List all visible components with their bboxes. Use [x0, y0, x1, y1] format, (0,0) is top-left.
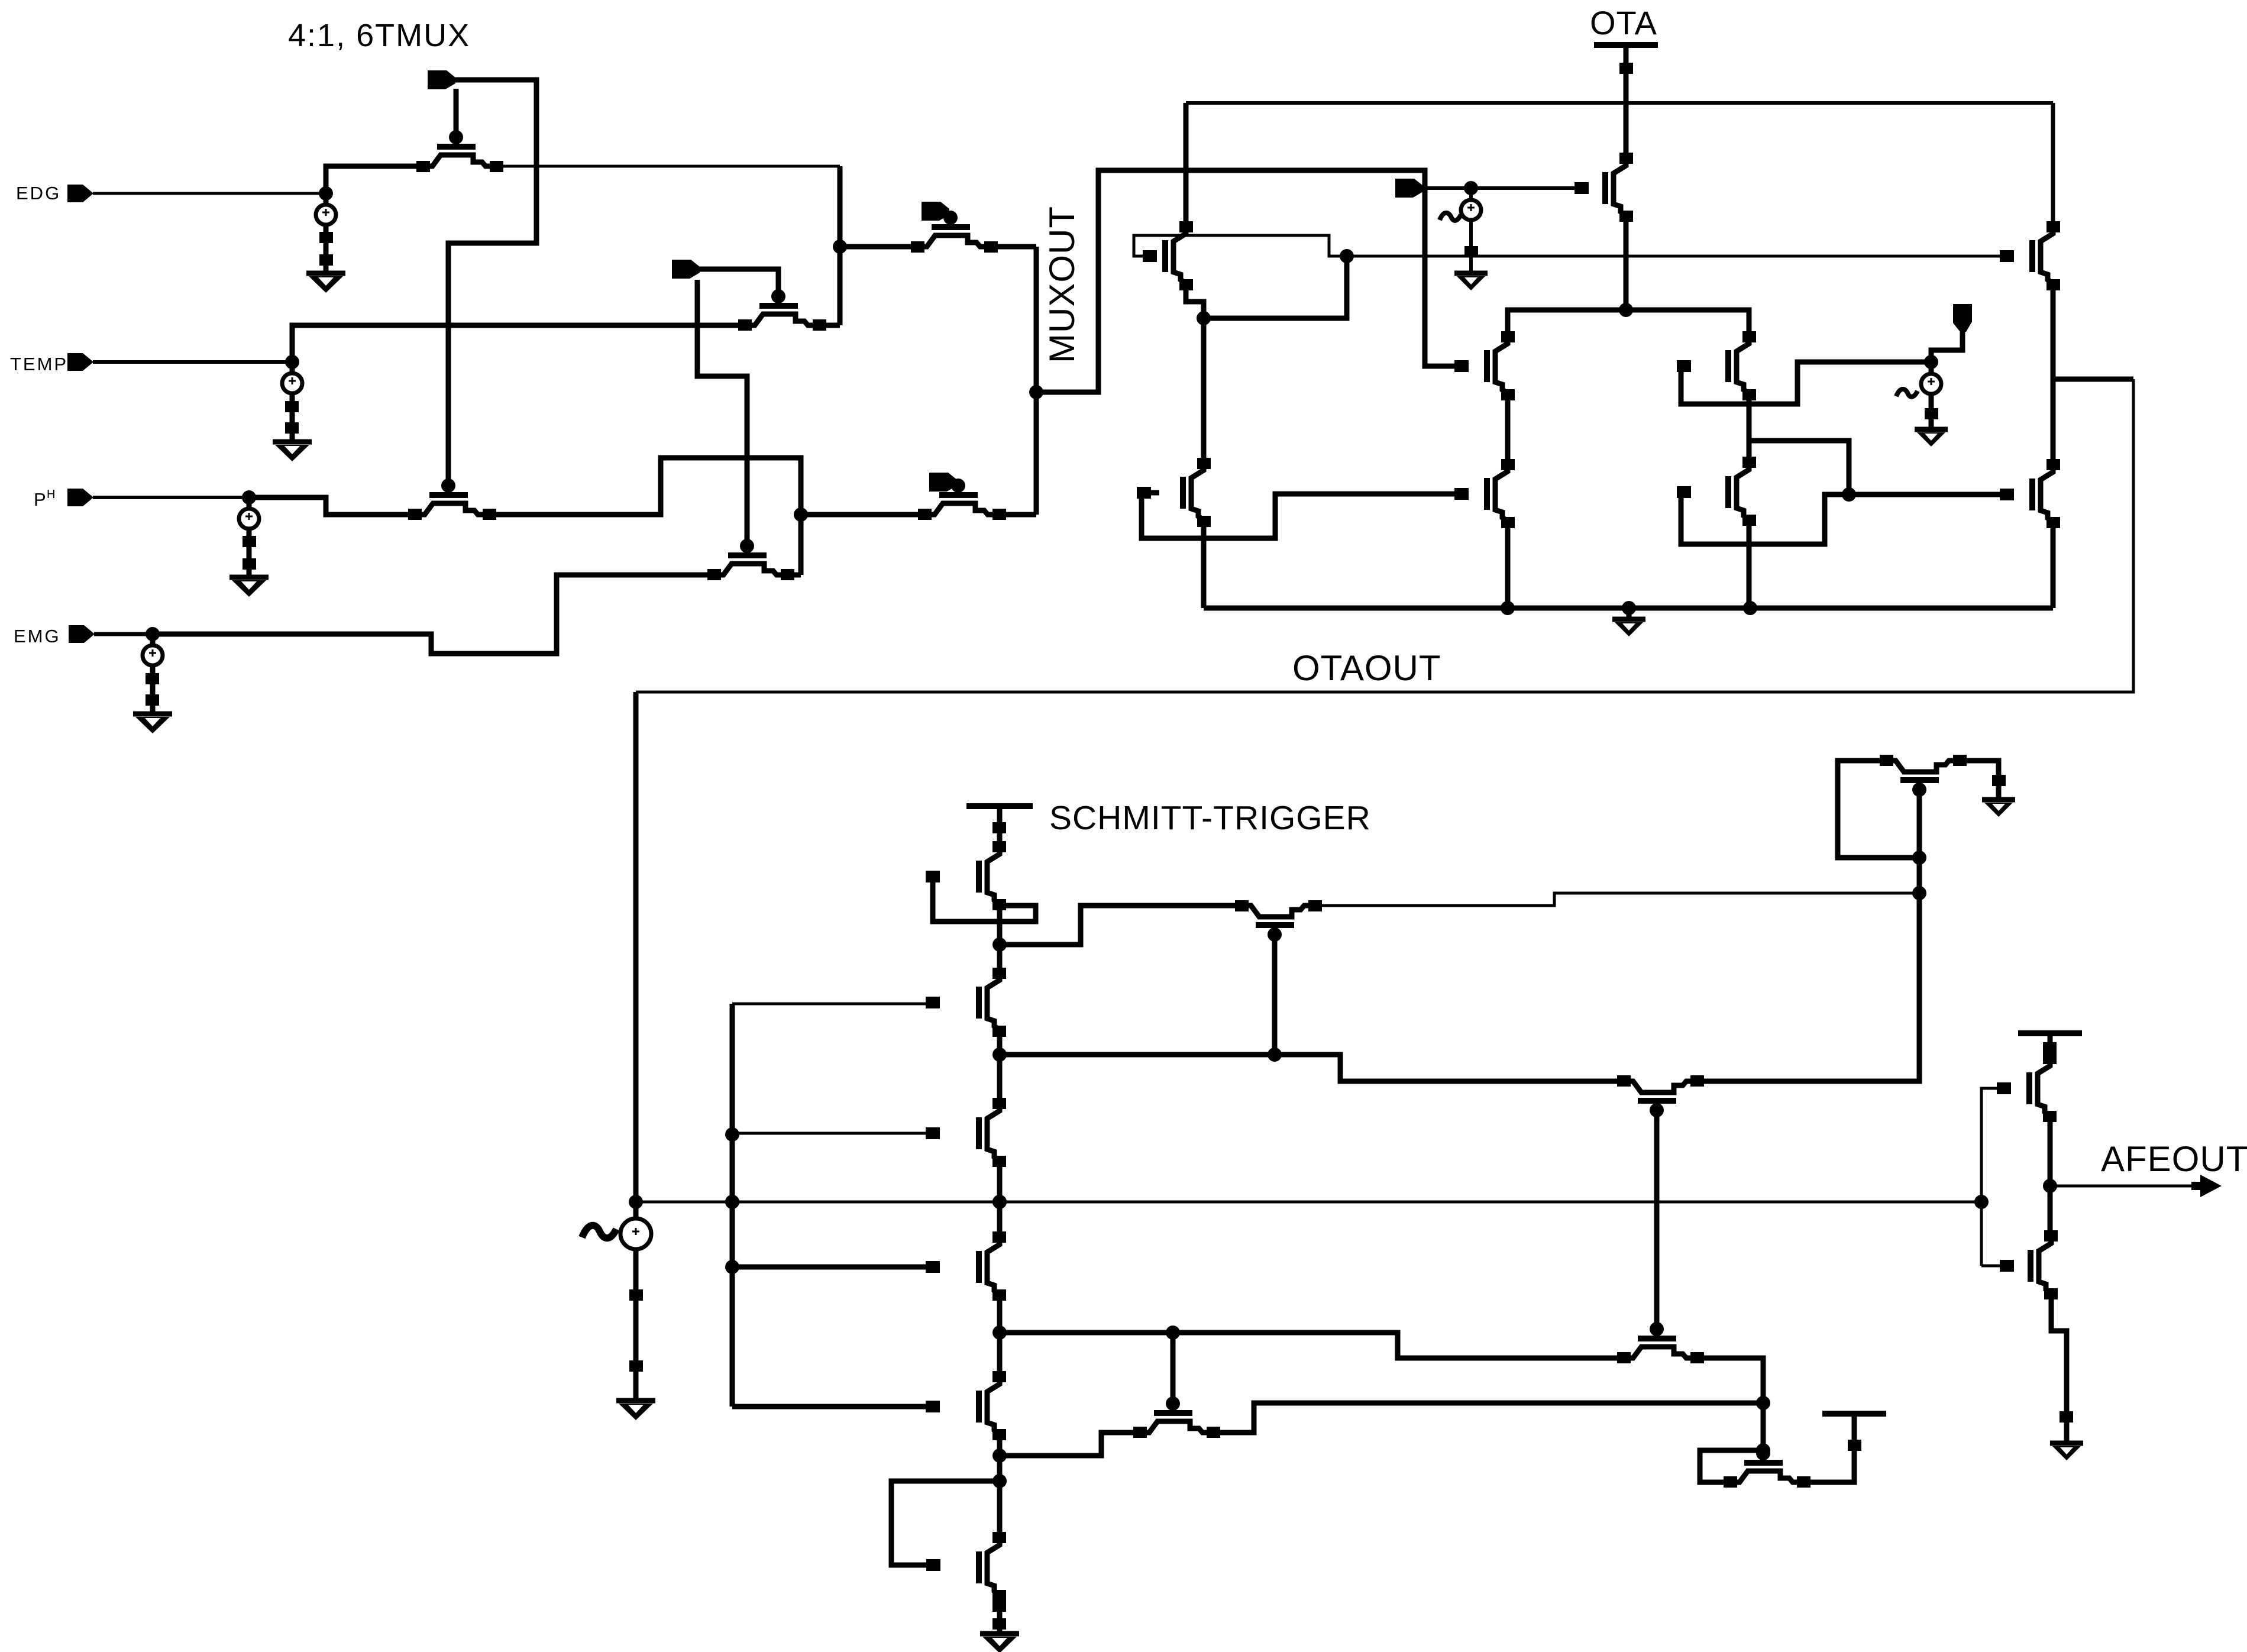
svg-text:OTAOUT: OTAOUT — [1292, 648, 1441, 688]
wire TEMP to M3 source — [292, 325, 745, 362]
voltage source V-EDG with ground — [324, 193, 329, 205]
wire M11 drain chain — [1186, 285, 1204, 461]
wire M28 drain chain — [1698, 1358, 1763, 1450]
wire M17 source to rail — [2051, 103, 2055, 227]
flag SEL2 at M3 gate — [672, 260, 700, 279]
wire AFEOUT — [2050, 1185, 2196, 1188]
transistor M1 (EDG pass gate) — [437, 144, 476, 150]
ground schmitt column — [980, 1631, 1019, 1637]
transistor M22 (schmitt chain) — [976, 1251, 982, 1283]
svg-text:EDG: EDG — [16, 183, 61, 203]
transistor M21 (schmitt chain) — [976, 1117, 982, 1149]
vdd symbol M30 — [1822, 1411, 1886, 1417]
voltage source V-TEMP with ground — [290, 362, 295, 373]
node X1 junction — [833, 240, 847, 254]
wire M14 source to ground rail — [1505, 522, 1511, 608]
transistor M13 (input device upper) — [1484, 350, 1490, 382]
voltage source V-EMG with ground — [150, 634, 156, 645]
wire M29 gate stem — [1171, 1333, 1176, 1402]
wire M5 drain to MUXOUT — [991, 244, 1036, 250]
wire M1 drain to node X1 — [497, 165, 840, 168]
wire M30 drain to vdd — [1804, 1414, 1854, 1482]
wire schmitt input bus — [730, 1004, 735, 1407]
node schmitt col junction 5 — [992, 1449, 1007, 1463]
flag MUXOUT net label — [1395, 179, 1423, 198]
wire M26 gate stem to M28 gate — [1654, 1110, 1660, 1329]
wire M10 drain to node N1 — [1624, 216, 1629, 310]
transistor M26 (schmitt feedback upper NMOS) — [1638, 1098, 1676, 1104]
wire schmitt column 5 — [997, 1435, 1003, 1537]
wire MUXOUT vertical — [1034, 247, 1039, 515]
wire M16 gate loop to M18 gate — [1681, 492, 2007, 544]
vdd symbol OTA — [1594, 42, 1658, 48]
wire feedback bus lower — [1000, 1333, 1624, 1358]
wire feedback bus upper — [1000, 1055, 1624, 1081]
wire M10 gate — [1427, 186, 1582, 190]
wire M31 gate to input bus — [1981, 1088, 2004, 1266]
wire flag SEL2 to M3 gate — [700, 269, 778, 293]
svg-text:P: P — [34, 489, 47, 510]
svg-text:AFEOUT: AFEOUT — [2101, 1139, 2247, 1179]
node M28 gate junction — [1166, 1326, 1180, 1340]
transistor M20 (schmitt chain PMOS) — [976, 987, 982, 1019]
transistor M29 (schmitt lower mid NMOS) — [1154, 1410, 1192, 1416]
wire OTAOUT — [636, 379, 2133, 692]
transistor M10 (OTA tail current source) — [1602, 172, 1608, 204]
wire select line SEL1 to M2 gate — [448, 80, 536, 483]
wire M27 source loop — [1838, 761, 1919, 858]
wire M21 gate — [732, 1132, 933, 1135]
wire X2 to M6 source — [801, 512, 925, 518]
svg-text:EMG: EMG — [14, 626, 61, 646]
wire M19 gate loop — [933, 877, 1036, 922]
wire OTA output branch — [2053, 377, 2133, 382]
wire cascode mid tap to M18 gate bus — [1749, 441, 1849, 494]
wire M29 drain — [1214, 1403, 1763, 1433]
transistor M11 (OTA left mirror PMOS, diode connected) — [1162, 240, 1168, 272]
wire M15 gate loop — [1681, 362, 1931, 404]
wire M3 drain to X1 — [819, 323, 840, 328]
wire schmitt column 1 — [997, 905, 1003, 972]
wire TEMP input — [93, 360, 292, 364]
wire M30 gate-source loop — [1700, 1450, 1763, 1482]
wire M11 gate loop and mirror bus — [1134, 235, 2007, 256]
wire EDG to M1 source — [326, 166, 423, 193]
wire EMG to M4 source — [153, 575, 716, 654]
wire M5 gate stub — [949, 213, 950, 227]
svg-text:MUXOUT: MUXOUT — [1042, 206, 1082, 363]
wire schmitt column 4 — [997, 1295, 1003, 1376]
node schmitt col junction 1 — [992, 937, 1007, 952]
ac source V-bias2 with ground — [1929, 362, 1934, 374]
transistor M3 (TEMP pass gate) — [759, 303, 798, 309]
node TEMP junction — [285, 355, 299, 369]
wire M27 drain to ground — [1960, 761, 1999, 800]
transistor M14 (input device lower) — [1484, 478, 1490, 510]
node schmitt input junction — [629, 1195, 643, 1209]
wire M6 drain to MUXOUT — [994, 512, 1036, 518]
wire M15 source to M16 drain — [1747, 395, 1752, 464]
ac source V-bias1 with ground — [1469, 188, 1473, 199]
node N1 junction — [1619, 303, 1633, 317]
ac source V-IN with ground — [633, 1202, 639, 1218]
wire M28 source loop — [1000, 1433, 1140, 1456]
port AFEOUT output arrow — [2191, 1175, 2222, 1197]
flag SEL1 at M1 gate — [428, 70, 455, 89]
node PH junction — [242, 490, 256, 505]
node M18 gate junction — [1842, 487, 1856, 502]
transistor M5 (second level select) — [932, 224, 970, 230]
wire M32 source to ground — [2051, 1294, 2067, 1443]
wire X1 to M5 source — [840, 244, 917, 250]
transistor M30 (schmitt right NMOS diode) — [1744, 1460, 1783, 1466]
wire M22 gate — [732, 1265, 933, 1270]
node M30 gate junction — [1756, 1443, 1770, 1457]
ground OTA rail — [1622, 601, 1636, 615]
wire M13 source to M14 drain — [1505, 395, 1511, 464]
node EMG junction — [146, 627, 160, 641]
node M25 gate junction — [1268, 1048, 1282, 1062]
transistor M25 (schmitt feedback PMOS upper) — [1256, 922, 1294, 928]
wire MUXOUT to OTA input — [1036, 170, 1462, 392]
node output gate junction — [1974, 1195, 1989, 1209]
wire OTA top rail — [1186, 101, 2053, 105]
node schmitt col junction 6 — [992, 1474, 1007, 1488]
wire OTA ground rail — [1204, 606, 2053, 611]
node mirror bus junction — [1340, 249, 1354, 263]
transistor M31 (output PMOS) — [2026, 1072, 2032, 1104]
wire N1 to M15 drain — [1626, 310, 1749, 337]
port EMG — [69, 625, 95, 643]
transistor M4 (EMG pass gate) — [728, 552, 767, 558]
node AFEOUT junction — [2043, 1179, 2057, 1193]
node M27 junction — [1912, 886, 1926, 900]
transistor M23 (schmitt chain) — [976, 1391, 982, 1423]
wire M23 gate — [732, 1404, 933, 1409]
wire M13 drain to N1 — [1508, 310, 1626, 337]
wire M12 source to ground rail — [1201, 521, 1207, 608]
wire select line SEL2 to M4 gate — [697, 280, 747, 543]
transistor M18 (output NMOS) — [2029, 479, 2035, 510]
svg-text:TEMP: TEMP — [10, 354, 68, 374]
wire M11 drain to mirror bus — [1204, 256, 1347, 318]
svg-text:H: H — [47, 488, 56, 501]
node MUXOUT junction — [1029, 385, 1043, 399]
node M29 drain junction — [1756, 1396, 1770, 1410]
transistor M2 (PH pass gate) — [429, 492, 468, 498]
flag SEL3 at M5 gate — [922, 202, 949, 221]
wire M12 gate loop to M14 gate — [1142, 493, 1462, 538]
wire M25 drain to M27 node — [1315, 893, 1919, 906]
svg-text:OTA: OTA — [1590, 4, 1657, 41]
svg-text:4:1, 6TMUX: 4:1, 6TMUX — [288, 18, 470, 53]
vdd symbol output stage — [2018, 1030, 2082, 1036]
transistor M28 (schmitt feedback lower NMOS) — [1638, 1336, 1676, 1341]
wire M20 gate — [732, 1003, 933, 1006]
wire M2 drain to node X2 — [489, 458, 801, 575]
transistor M32 (output NMOS) — [2028, 1250, 2033, 1282]
transistor M16 (cascode lower right) — [1725, 476, 1731, 508]
wire PH input — [93, 496, 249, 499]
wire M24 gate loop — [891, 1481, 1000, 1565]
wire schmitt column to ground — [997, 1596, 1003, 1634]
wire M32 gate — [1981, 1265, 2007, 1268]
transistor M12 (OTA left lower NMOS) — [1180, 477, 1186, 509]
node X2 junction — [794, 507, 808, 522]
wire M6 gate stub — [957, 484, 958, 495]
transistor M19 (schmitt top PMOS diode) — [976, 861, 982, 893]
wire M1 gate stem — [454, 89, 459, 147]
wire schmitt column 3 — [997, 1162, 1003, 1236]
node schmitt col junction 4 — [992, 1326, 1007, 1340]
transistor M24 (schmitt bottom NMOS diode) — [976, 1551, 982, 1583]
transistor M17 (output PMOS) — [2029, 240, 2035, 272]
vdd symbol schmitt — [966, 803, 1033, 809]
wire schmitt column 2 — [997, 1031, 1003, 1103]
node schmitt mid junction — [992, 1195, 1007, 1209]
wire OTAOUT vertical to schmitt input — [633, 692, 639, 1202]
flag bias2 net label — [1953, 304, 1972, 332]
node bias1 junction — [1464, 181, 1478, 195]
node bias2 junction — [1924, 355, 1938, 369]
wire M4 drain to X2 — [788, 573, 801, 578]
node EDG junction — [319, 186, 333, 201]
node schmitt col junction 2 — [992, 1048, 1007, 1062]
voltage source V-PH with ground — [247, 497, 252, 509]
wire EDG input — [93, 192, 326, 195]
transistor M6 (second level select) — [939, 492, 978, 498]
wire M17 drain to M18 drain — [2051, 285, 2056, 464]
transistor M15 (cascode upper right) — [1725, 350, 1731, 382]
wire M11 source to rail — [1184, 103, 1189, 227]
port EDG — [67, 185, 93, 202]
port TEMP — [67, 353, 93, 371]
ground output stage — [2050, 1441, 2083, 1446]
port PH — [67, 489, 93, 506]
ground M27 drain — [1982, 797, 2015, 803]
wire PH to M2 source — [249, 497, 415, 515]
transistor M27 (top right NMOS) — [1900, 777, 1939, 783]
wire M18 source to ground rail — [2051, 523, 2056, 608]
wire tap to M25 source — [1000, 906, 1241, 945]
wire EMG input — [94, 632, 153, 636]
wire output node — [2048, 1117, 2053, 1235]
flag SEL4 at M6 gate — [929, 473, 957, 492]
wire M16 source to ground rail — [1747, 521, 1752, 608]
svg-text:SCHMITT-TRIGGER: SCHMITT-TRIGGER — [1049, 799, 1371, 837]
wire schmitt mid bus to output stage — [636, 1201, 1981, 1204]
wire M25 gate stem — [1272, 935, 1278, 1055]
wire M26 drain to M27 gate — [1698, 793, 1919, 1081]
